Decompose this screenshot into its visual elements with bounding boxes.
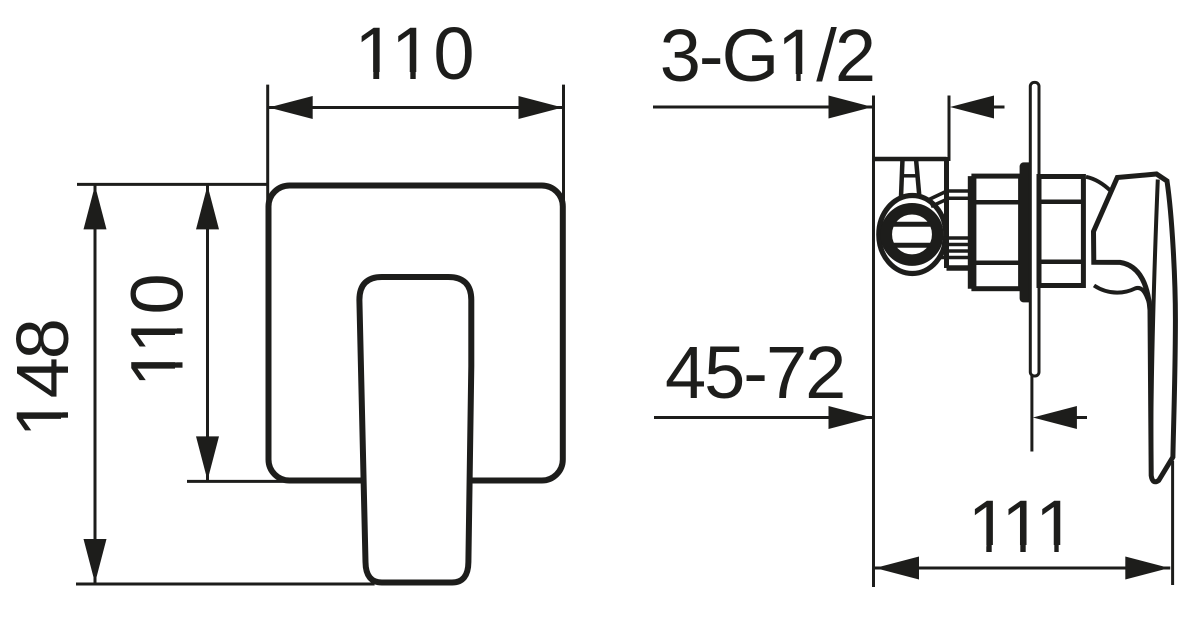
dim vertical 110: bottom reference line: [187, 480, 290, 483]
flange: [968, 176, 972, 289]
dim top 110: right extension line: [562, 85, 565, 202]
lever chamfer line: [1151, 180, 1158, 475]
dim 3-G1/2: right-pointing arrowhead: [829, 96, 873, 119]
dim 111: right extension line: [1171, 461, 1174, 585]
valve body bottom edge: [947, 265, 972, 271]
side port outer contour (ellipse): [879, 196, 946, 274]
side port thick ring: [886, 209, 937, 260]
dim vertical 110: top arrowhead: [196, 185, 219, 229]
svg-text:45-72: 45-72: [665, 331, 844, 414]
dim 148: top arrowhead: [84, 185, 107, 229]
dim top 110: right arrowhead: [519, 96, 563, 119]
svg-text:110: 110: [355, 12, 476, 95]
dim 111: left arrowhead: [875, 557, 919, 580]
handle base (side view): [1039, 177, 1083, 286]
top port stub: [901, 159, 903, 197]
valve body right face: [944, 157, 949, 268]
extension line E1 (body back face): [872, 96, 875, 588]
dim 148: vertical dimension line: [94, 184, 97, 584]
wall plate (front view): [269, 186, 563, 481]
dim 3-G1/2: left-pointing arrowhead with tail: [950, 96, 994, 119]
dim 45-72: extension line at plate: [1030, 376, 1033, 452]
handle (front view): [359, 277, 471, 583]
connection lines circle to flange: [929, 191, 948, 200]
svg-text:148: 148: [1, 320, 84, 437]
dim top 110: dimension line: [268, 106, 564, 109]
dim 148: bottom arrowhead: [84, 539, 107, 583]
dim 111: right arrowhead: [1125, 557, 1169, 580]
dim top 110: left arrowhead: [269, 96, 313, 119]
dim 45-72: right-pointing arrowhead: [829, 406, 873, 429]
dim 45-72: left-pointing arrowhead with tail: [1033, 406, 1077, 429]
dim 45-72: leader line: [654, 416, 874, 419]
lever underside bump: [1094, 286, 1151, 311]
dim 148/110: top reference line: [77, 183, 269, 186]
extension line E2 (port plane): [948, 96, 951, 162]
dim vertical 110: dimension line: [206, 184, 209, 481]
dim vertical 110: bottom arrowhead: [196, 436, 219, 480]
valve body top face: [872, 157, 947, 162]
white covers to remove "1" foot serifs: [358, 72, 373, 82]
wall plate (side view, edge-on): [1030, 82, 1039, 376]
dim 3-G1/2: leader line: [653, 106, 874, 109]
svg-text:110: 110: [115, 275, 198, 387]
svg-text:111: 111: [968, 485, 1074, 568]
dim 111: dimension line: [874, 567, 1170, 570]
dim 148: bottom reference line: [76, 583, 375, 586]
union block: [974, 176, 1021, 289]
black mounting bar: [1020, 162, 1036, 302]
side port slot chords: [890, 222, 931, 227]
svg-text:3-G1/2: 3-G1/2: [660, 14, 874, 97]
dim top 110: left extension line: [266, 85, 269, 202]
handle lever (side view): [1094, 174, 1176, 482]
fillet base to lever: [1086, 177, 1111, 192]
